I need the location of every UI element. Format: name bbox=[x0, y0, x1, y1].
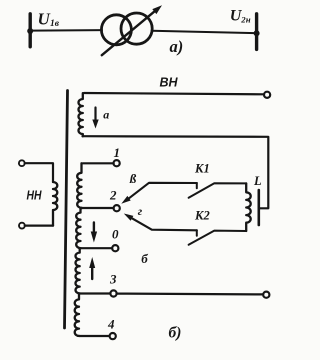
core bbox=[65, 91, 68, 329]
tap 3 circle bbox=[110, 290, 116, 296]
wire HV top line to terminal bbox=[84, 93, 264, 94]
tap 4 wire bbox=[79, 335, 109, 337]
selector contact v (to K1) with arrow into tap 2 bbox=[121, 183, 197, 204]
svg-text:L: L bbox=[253, 174, 262, 188]
terminal U2n bar bbox=[254, 14, 260, 50]
svg-text:НН: НН bbox=[27, 188, 42, 203]
winding section 0-3 bbox=[76, 248, 80, 293]
tap 3 wire bbox=[80, 292, 110, 294]
arrow a (down) bbox=[92, 108, 98, 129]
winding section 2-0 bbox=[76, 208, 80, 248]
adjustment arrow through T1 bbox=[102, 5, 162, 55]
winding section 3-4 bbox=[75, 294, 79, 337]
selector contact g (to K2) with arrow into tap 2 bbox=[124, 214, 197, 236]
regulating transformer symbol T1 (two circles) bbox=[101, 13, 152, 45]
svg-text:2н: 2н bbox=[240, 14, 250, 24]
wire bbox=[25, 225, 53, 227]
svg-text:U: U bbox=[38, 10, 51, 29]
svg-text:а: а bbox=[103, 108, 109, 122]
svg-text:К1: К1 bbox=[194, 162, 210, 176]
svg-text:ß: ß bbox=[129, 171, 137, 186]
svg-text:б: б bbox=[141, 251, 148, 266]
tap 2 wire bbox=[82, 207, 114, 209]
svg-text:К2: К2 bbox=[194, 209, 210, 223]
contactor K2 blade bbox=[189, 231, 247, 245]
wire bbox=[25, 163, 53, 182]
winding section a (main HV winding) bbox=[79, 93, 83, 136]
svg-text:г: г bbox=[138, 204, 143, 218]
tap 1 wire bbox=[83, 162, 114, 164]
contactor K1 blade bbox=[189, 183, 247, 198]
wire bbox=[32, 29, 102, 32]
down arrow (tap direction) above 0 bbox=[91, 223, 97, 243]
terminal (NN top, open circle) bbox=[19, 160, 25, 166]
tap 0 circle bbox=[112, 245, 118, 251]
svg-text:2: 2 bbox=[109, 188, 117, 203]
reactor L coil bbox=[246, 183, 251, 231]
tap 2 circle bbox=[114, 205, 120, 211]
reactor L core bar bbox=[257, 190, 260, 225]
svg-text:3: 3 bbox=[109, 272, 117, 287]
svg-text:б): б) bbox=[169, 325, 182, 342]
wire second line to reactor mid-tap bbox=[83, 136, 269, 208]
wire bbox=[152, 31, 255, 33]
svg-text:а): а) bbox=[170, 37, 184, 56]
terminal (VN top, open circle) bbox=[264, 92, 270, 98]
winding section 1-2 bbox=[77, 163, 81, 208]
tap 4 circle bbox=[110, 333, 116, 339]
label U1v bbox=[38, 10, 60, 30]
wire tap 3 to output terminal bbox=[117, 293, 263, 296]
svg-text:1: 1 bbox=[114, 145, 121, 160]
svg-text:1в: 1в bbox=[50, 19, 60, 29]
terminal (NN bottom, open circle) bbox=[19, 223, 25, 229]
terminal U1v bar bbox=[27, 14, 33, 47]
terminal (tap 3 output, open circle) bbox=[263, 292, 269, 298]
tap 1 circle bbox=[114, 160, 120, 166]
up arrow (tap direction) below 0 bbox=[89, 257, 95, 279]
label U2n bbox=[230, 8, 251, 25]
tap 0 wire bbox=[81, 247, 113, 249]
svg-text:0: 0 bbox=[112, 226, 119, 241]
winding NN bbox=[53, 182, 57, 226]
svg-text:4: 4 bbox=[107, 317, 115, 332]
svg-text:ВН: ВН bbox=[160, 76, 179, 90]
